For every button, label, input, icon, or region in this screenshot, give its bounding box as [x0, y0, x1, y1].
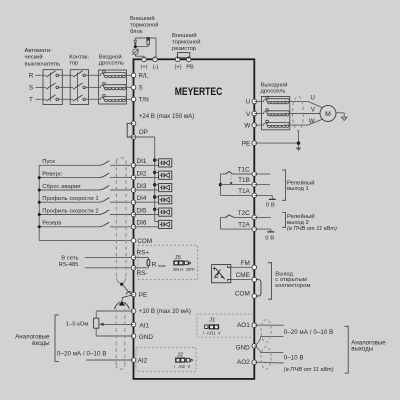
wire T1A — [220, 194, 254, 196]
wire DI4 into optocoupler — [134, 201, 159, 203]
output choke coil W — [263, 123, 266, 125]
svg-text:Автомати-: Автомати- — [25, 48, 53, 54]
svg-text:0–20 мА / 0–10 В: 0–20 мА / 0–10 В — [284, 329, 334, 336]
switch DI3 — [99, 185, 109, 190]
svg-text:Профиль скорости 2: Профиль скорости 2 — [42, 208, 98, 214]
shield cable AO2 dashed — [261, 347, 271, 369]
svg-text:GND: GND — [236, 345, 251, 352]
svg-text:AO1: AO1 — [237, 322, 250, 329]
wire DI4 to terminal — [110, 201, 134, 203]
svg-text:I: I — [174, 364, 175, 369]
wire choke U out — [284, 100, 289, 102]
wire brake resistor to terminals — [177, 58, 179, 60]
breaker switch S — [46, 83, 56, 89]
switch DI5 — [99, 210, 109, 215]
terminal (-) dc bus — [153, 57, 158, 62]
breaker linkage — [49, 73, 51, 102]
svg-text:Профиль скорости 1: Профиль скорости 1 — [42, 196, 98, 202]
relay1 actuator dashed — [230, 175, 232, 182]
terminal T1B — [252, 182, 257, 187]
bracket analog inputs — [55, 315, 59, 362]
terminal T1A — [252, 193, 257, 198]
svg-text:AO1: AO1 — [207, 331, 216, 336]
svg-text:Входной: Входной — [99, 53, 122, 60]
optocoupler DI1 — [159, 159, 172, 167]
wire bus pin DI4 — [155, 196, 159, 198]
svg-text:OP: OP — [139, 129, 148, 136]
junction DI bus DI5 — [153, 208, 156, 211]
junction shield RS — [120, 283, 123, 286]
svg-text:R: R — [152, 261, 157, 268]
motor M — [320, 105, 336, 121]
wire T1A to 0V — [254, 194, 272, 196]
svg-text:W: W — [309, 119, 315, 125]
output choke coil U — [263, 99, 266, 101]
wire DI3 to terminal — [110, 189, 134, 191]
bracket open collector — [268, 263, 272, 300]
svg-text:0–10 В: 0–10 В — [284, 354, 304, 361]
wire choke to terminal T/N — [121, 98, 134, 100]
terminal GND left — [131, 334, 136, 339]
svg-text:R: R — [29, 73, 34, 80]
junction left bus DI2 — [38, 176, 41, 179]
svg-text:PE: PE — [242, 140, 251, 147]
wire AI2 — [86, 359, 134, 361]
terminal PB brake — [186, 57, 191, 62]
varistor brake unit — [133, 49, 138, 54]
svg-text:(в ПЧВ от 11 кВт): (в ПЧВ от 11 кВт) — [287, 226, 337, 232]
svg-text:M: M — [325, 111, 331, 118]
wire motor to earth — [336, 112, 344, 114]
wire DI1 into optocoupler — [134, 164, 159, 166]
wire switch DI1 — [39, 164, 99, 166]
svg-text:V: V — [187, 364, 190, 369]
terminal AO1 — [252, 323, 257, 328]
wire (-) up — [154, 57, 156, 59]
svg-text:В сеть: В сеть — [61, 256, 78, 262]
twisted drain to PE lower — [122, 295, 134, 302]
wire T1B stub — [254, 184, 270, 186]
svg-text:PE: PE — [139, 292, 148, 299]
dashed box J1 section — [197, 314, 254, 337]
svg-text:DI6: DI6 — [137, 220, 147, 227]
svg-text:U: U — [246, 99, 251, 106]
wire choke W out — [284, 124, 289, 126]
wire +10V to potentiometer — [96, 310, 133, 312]
svg-text:CME: CME — [236, 272, 250, 279]
svg-text:1–5 кОм: 1–5 кОм — [66, 322, 89, 328]
relay2 contact blade — [225, 215, 234, 218]
wire choke to terminal S — [121, 86, 134, 88]
wire brake unit top — [135, 37, 156, 39]
svg-text:(+): (+) — [141, 64, 148, 70]
wire breaker to contactor T — [59, 98, 74, 100]
junction DI bus DI2 — [153, 171, 156, 174]
wire bus pin DI6 — [155, 221, 159, 223]
svg-text:V: V — [218, 331, 221, 336]
dashed box RS-485 section — [138, 245, 198, 280]
wire U to motor — [290, 100, 308, 102]
wire opto to FM — [231, 266, 255, 268]
svg-text:0 В: 0 В — [265, 235, 274, 241]
wire RS+ to terminator — [134, 256, 149, 258]
junction relay1 T1B — [219, 183, 222, 186]
contactor switch S — [73, 83, 83, 89]
input choke coil S — [100, 85, 103, 87]
junction brake unit — [134, 45, 137, 48]
svg-text:0–20 мА / 0–10 В: 0–20 мА / 0–10 В — [57, 350, 107, 357]
svg-text:ON: ON — [173, 267, 180, 272]
wire switch DI6 — [39, 226, 99, 228]
twisted drain to PE upper — [122, 284, 134, 294]
svg-text:резистор: резистор — [172, 46, 196, 52]
input choke box — [98, 70, 126, 104]
svg-text:GND: GND — [139, 334, 154, 341]
wire DI6 to terminal — [110, 226, 134, 228]
wire potentiometer to GND — [95, 328, 97, 336]
wire resistor to junction — [147, 45, 149, 47]
junction left bus DI6 — [38, 225, 41, 228]
svg-text:MEYERTEC: MEYERTEC — [175, 86, 223, 98]
wire DI common bus left — [38, 165, 40, 240]
svg-text:(в ПЧВ от 11 кВт): (в ПЧВ от 11 кВт) — [284, 367, 334, 373]
wire DI2 into optocoupler — [134, 177, 159, 179]
svg-text:U: U — [311, 96, 315, 102]
wire switch DI2 — [39, 177, 99, 179]
terminal T1C — [252, 172, 257, 177]
contactor box — [70, 70, 88, 105]
svg-text:тормозной: тормозной — [172, 39, 201, 46]
arrow shield AI up — [114, 302, 129, 309]
svg-text:дроссель: дроссель — [99, 61, 124, 67]
svg-text:DI5: DI5 — [137, 207, 147, 214]
junction left bus DI3 — [38, 189, 41, 192]
wire motor shield drain — [298, 131, 300, 148]
terminal AI1 — [131, 322, 136, 327]
terminal FM — [252, 265, 257, 270]
svg-text:J2: J2 — [177, 352, 183, 358]
junction DI bus DI4 — [153, 195, 156, 198]
svg-text:0 В: 0 В — [266, 203, 275, 209]
svg-text:AI2: AI2 — [138, 357, 148, 364]
wire DI2 to terminal — [110, 177, 134, 179]
terminal COM right — [252, 294, 257, 299]
wire RS- — [85, 267, 134, 269]
svg-text:T: T — [29, 97, 33, 104]
wire DI1 to terminal — [110, 164, 134, 166]
shield cable AI dashed left — [115, 309, 117, 367]
svg-text:Пуск: Пуск — [42, 159, 55, 165]
terminal DI5 — [131, 212, 136, 217]
svg-text:FM: FM — [241, 260, 250, 267]
wire GND return lower — [254, 346, 283, 353]
wire choke V out — [284, 113, 289, 115]
jumper CME to COM — [256, 280, 261, 296]
wire PE to earth — [254, 142, 298, 144]
shield cable AO1 dashed — [261, 320, 271, 343]
svg-text:(-): (-) — [153, 64, 159, 70]
svg-text:J1: J1 — [209, 318, 215, 324]
wire contactor to choke S — [86, 86, 102, 88]
svg-text:S: S — [29, 85, 33, 92]
wire breaker to contactor R — [59, 74, 74, 76]
output choke box — [262, 97, 290, 130]
wire AO2 out — [254, 361, 283, 364]
svg-text:AO2: AO2 — [237, 359, 250, 366]
bracket analog outputs — [345, 326, 349, 373]
svg-text:I: I — [203, 331, 204, 336]
terminal COM left — [131, 238, 136, 243]
terminal T/N — [131, 97, 136, 102]
wire terminator to RS- — [147, 266, 149, 268]
optocoupler DI6 — [159, 220, 172, 228]
wire bus pin DI3 — [155, 184, 159, 186]
wire opto to CME — [230, 279, 232, 281]
svg-text:AI1: AI1 — [140, 322, 150, 329]
svg-text:RS-485: RS-485 — [59, 262, 80, 268]
wire T to breaker — [36, 98, 47, 100]
terminal R/L — [131, 73, 136, 78]
terminal S — [131, 85, 136, 90]
bracket relay output 1 — [282, 170, 286, 200]
wire choke to terminal R/L — [121, 74, 134, 76]
switch DI1 — [99, 161, 109, 166]
shield motor cable dashed — [293, 96, 304, 131]
wire S to breaker — [36, 86, 47, 88]
wire T2A to 0V — [254, 228, 270, 230]
svg-text:S: S — [139, 85, 143, 92]
terminal +24V — [131, 121, 136, 126]
terminal AO2 — [252, 360, 257, 365]
junction PE — [297, 141, 300, 144]
switch DI2 — [99, 173, 109, 178]
wire contactor to choke R — [86, 74, 102, 76]
wire DI3 into optocoupler — [134, 189, 159, 191]
shield cable control top arc — [116, 158, 126, 162]
shield cable AI bottom arc — [116, 366, 125, 370]
junction left bus DI4 — [38, 201, 41, 204]
svg-text:COM: COM — [137, 238, 152, 245]
svg-text:T2A: T2A — [238, 222, 250, 229]
potentiometer 1-5 kOhm — [94, 318, 99, 328]
wire T2C stub — [254, 216, 271, 218]
wire bus pin DI5 — [155, 208, 159, 210]
wire OP to DI bus — [134, 136, 155, 138]
thyristor brake unit — [134, 38, 136, 40]
terminal RS- — [131, 266, 136, 271]
svg-text:DI4: DI4 — [137, 195, 147, 202]
svg-text:выключатель: выключатель — [25, 61, 61, 67]
relay1 contact blade — [225, 171, 233, 174]
wire T2C — [234, 216, 255, 218]
terminal U — [252, 99, 257, 104]
wire COM return — [39, 240, 133, 242]
shield cable control dashed right — [125, 161, 127, 278]
wire bus pin DI2 — [155, 171, 159, 173]
svg-text:V: V — [311, 108, 315, 114]
svg-text:AI2: AI2 — [178, 364, 185, 369]
wire DI5 into optocoupler — [134, 214, 159, 216]
shield cable AI dashed right — [124, 309, 126, 367]
wire bus pin DI1 — [155, 159, 159, 161]
wire RS+ — [85, 256, 134, 258]
svg-text:Внешний: Внешний — [130, 15, 155, 22]
wire DI6 into optocoupler — [134, 226, 159, 228]
contactor switch T — [73, 95, 83, 101]
wire W to choke — [254, 124, 264, 126]
wire GND return upper — [254, 337, 283, 346]
terminal OP — [131, 135, 136, 140]
terminal V — [252, 111, 257, 116]
svg-text:(+): (+) — [175, 64, 182, 70]
svg-text:DI2: DI2 — [137, 170, 147, 177]
svg-text:выход 1: выход 1 — [287, 186, 309, 192]
svg-text:+24 В (max 150 мА): +24 В (max 150 мА) — [139, 113, 195, 120]
svg-text:Реверс: Реверс — [42, 171, 62, 177]
svg-text:дроссель: дроссель — [261, 89, 286, 95]
svg-text:DI3: DI3 — [137, 183, 147, 190]
shield cable control dashed left — [115, 161, 117, 278]
svg-text:блок: блок — [130, 29, 143, 35]
terminal DI1 — [131, 163, 136, 168]
svg-text:Н: Н — [180, 267, 183, 272]
svg-text:Внешний: Внешний — [172, 32, 197, 39]
terminal PE left — [131, 292, 136, 297]
junction left bus DI5 — [38, 213, 41, 216]
terminal T2A — [252, 227, 257, 232]
wire AO1 out — [254, 324, 284, 326]
wire relay1 common loop — [219, 174, 221, 195]
wire T1C stub — [254, 173, 270, 175]
earth PE arrow — [296, 148, 302, 152]
wire R to breaker — [36, 74, 47, 76]
input choke coil T — [100, 97, 103, 99]
output choke coil V — [263, 111, 266, 113]
svg-text:T1A: T1A — [238, 188, 250, 195]
svg-text:+10 В (max 20 мА): +10 В (max 20 мА) — [139, 308, 191, 315]
terminal DI4 — [131, 200, 136, 205]
terminal RS+ — [131, 255, 136, 260]
optocoupler DI5 — [159, 208, 172, 216]
svg-text:тор: тор — [69, 61, 78, 67]
svg-text:T1B: T1B — [238, 177, 250, 184]
svg-text:COM: COM — [235, 291, 250, 298]
dashed box J2 section — [136, 348, 196, 372]
optocoupler FM output — [212, 265, 231, 283]
contactor switch R — [73, 71, 83, 77]
svg-text:W: W — [244, 122, 251, 129]
wire T1C — [232, 173, 254, 175]
terminal DI2 — [131, 175, 136, 180]
wire relay2 loop — [219, 217, 221, 229]
svg-text:T1C: T1C — [238, 167, 250, 174]
bracket relay output 2 — [282, 213, 286, 228]
breaker switch T — [46, 95, 56, 101]
optocoupler DI3 — [159, 184, 172, 192]
svg-text:PB: PB — [186, 64, 194, 70]
terminal DI3 — [131, 188, 136, 193]
svg-text:терм: терм — [157, 264, 166, 268]
svg-text:тормозной: тормозной — [130, 22, 159, 29]
wire W to motor — [290, 124, 308, 126]
ground 0V relay2 — [267, 231, 274, 233]
circuit breaker box — [43, 70, 62, 105]
terminal CME — [252, 277, 257, 282]
wire V to motor — [290, 113, 321, 115]
jumper +24V to OP — [127, 123, 133, 137]
junction DI bus DI1 — [153, 158, 156, 161]
input choke coil R — [100, 73, 103, 75]
wire U to choke — [254, 100, 264, 102]
svg-text:RS+: RS+ — [137, 250, 150, 257]
breaker switch R — [46, 71, 56, 77]
svg-text:T/N: T/N — [139, 97, 150, 104]
resistor external brake — [177, 53, 189, 58]
wire breaker to contactor S — [59, 86, 74, 88]
switch DI6 — [99, 222, 109, 227]
terminal +10V — [131, 309, 136, 314]
junction DI bus DI3 — [153, 183, 156, 186]
VFD main unit outline — [134, 59, 255, 379]
terminal W — [252, 123, 257, 128]
svg-text:T2C: T2C — [238, 210, 250, 217]
svg-text:R/L: R/L — [139, 73, 149, 80]
svg-text:OFF: OFF — [186, 267, 195, 272]
svg-text:V: V — [246, 111, 251, 118]
ground 0V relay1 — [269, 198, 276, 200]
optocoupler DI4 — [159, 196, 172, 204]
resistor Rterm — [147, 260, 150, 266]
resistor brake unit internal — [147, 38, 150, 45]
terminal (+) brake 2 — [175, 57, 180, 62]
wiper arrow AI1 — [103, 323, 134, 325]
svg-text:выходы: выходы — [351, 346, 373, 353]
terminal DI6 — [131, 225, 136, 230]
optocoupler DI2 — [159, 171, 172, 179]
switch DI4 — [99, 198, 109, 203]
svg-text:входы: входы — [32, 340, 49, 347]
wire switch DI3 — [39, 189, 99, 191]
terminal (+) dc bus 1 — [142, 57, 147, 62]
contactor linkage — [77, 73, 79, 102]
svg-text:Резерв: Резерв — [42, 221, 61, 227]
earth motor — [341, 117, 347, 120]
svg-text:коллектором: коллектором — [275, 283, 310, 289]
shield drain to junction — [116, 278, 126, 284]
wire DI5 to terminal — [110, 214, 134, 216]
terminal AI2 — [131, 358, 136, 363]
svg-text:Сброс аварии: Сброс аварии — [42, 184, 80, 190]
svg-text:J5: J5 — [175, 255, 182, 261]
wire T1B — [220, 184, 254, 186]
terminal T2C — [252, 215, 257, 220]
wire varistor to (+) — [135, 54, 137, 56]
wire switch DI4 — [39, 201, 99, 203]
terminal GND right — [252, 344, 257, 349]
wire V to choke — [254, 113, 264, 115]
svg-text:ческий: ческий — [25, 54, 43, 61]
svg-text:DI1: DI1 — [137, 158, 147, 165]
svg-text:Выходной: Выходной — [261, 81, 288, 88]
terminal PE right — [252, 141, 257, 146]
wire switch DI5 — [39, 214, 99, 216]
svg-text:Контак-: Контак- — [69, 54, 89, 60]
wire contactor to choke T — [86, 98, 102, 100]
